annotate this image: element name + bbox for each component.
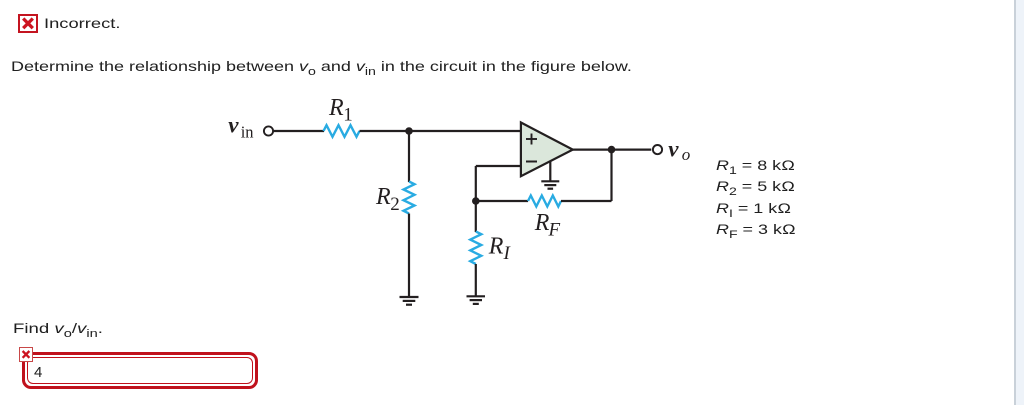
svg-text:1: 1 [343, 104, 353, 125]
svg-text:v: v [668, 137, 679, 162]
wire op-amp output [573, 149, 652, 151]
small red x badge on input box [19, 347, 33, 362]
wire RF to output riser [561, 200, 612, 202]
svg-text:2: 2 [390, 194, 400, 215]
resistor RF [528, 196, 561, 207]
label RI [488, 234, 512, 265]
wire RI to ground [475, 264, 477, 296]
wire left feedback riser [475, 166, 477, 201]
svg-text:I: I [503, 243, 512, 264]
wire op-amp reference ground stem [549, 161, 551, 181]
question text [11, 59, 632, 73]
wire vin to R1 [273, 130, 324, 132]
wire node B to RF [476, 200, 528, 202]
right page-edge strip [1014, 0, 1016, 405]
svg-text:v: v [228, 113, 239, 138]
label R1 [328, 95, 353, 126]
wire R1 to op-amp + input [360, 130, 521, 132]
ground (op-amp reference) [541, 181, 559, 188]
wire node A to R2 [408, 131, 410, 182]
wire inverting input to left riser [476, 165, 521, 167]
svg-text:F: F [548, 220, 561, 241]
terminal vo [653, 145, 662, 154]
svg-text:R: R [375, 184, 391, 210]
svg-text:R: R [534, 210, 550, 236]
svg-text:R: R [488, 234, 504, 260]
wire node B to RI [475, 201, 477, 232]
label R2 [375, 184, 400, 215]
answer text 4 [34, 365, 42, 380]
ground (RI branch) [467, 296, 486, 304]
label vo [668, 137, 690, 164]
svg-text:o: o [682, 145, 691, 164]
Incorrect. text [44, 16, 120, 30]
op-amp U1 body [521, 123, 573, 177]
op-amp U1 inverting input marker - [526, 161, 537, 163]
terminal vin [264, 126, 273, 135]
op-amp U1 non-inverting input marker + [526, 134, 537, 145]
resistor RI [470, 232, 481, 265]
svg-text:R: R [328, 95, 344, 121]
answer input box (error outline, double red border) [22, 352, 258, 389]
resistor R2 [404, 182, 415, 214]
node A (R1/R2 junction) [405, 127, 413, 135]
node B (RI/RF junction) [472, 197, 480, 205]
node C (output junction) [608, 146, 616, 154]
Find vo/vin. text [13, 321, 103, 335]
wire R2 to ground [408, 214, 410, 297]
label RF [534, 210, 561, 240]
ground (R2 branch) [400, 297, 419, 305]
resistor R1 [324, 125, 360, 137]
red X badge (Incorrect) [18, 14, 38, 33]
wire output riser [610, 150, 612, 201]
label vin [228, 113, 253, 142]
resistor values text block [716, 155, 796, 240]
svg-text:in: in [241, 122, 254, 141]
